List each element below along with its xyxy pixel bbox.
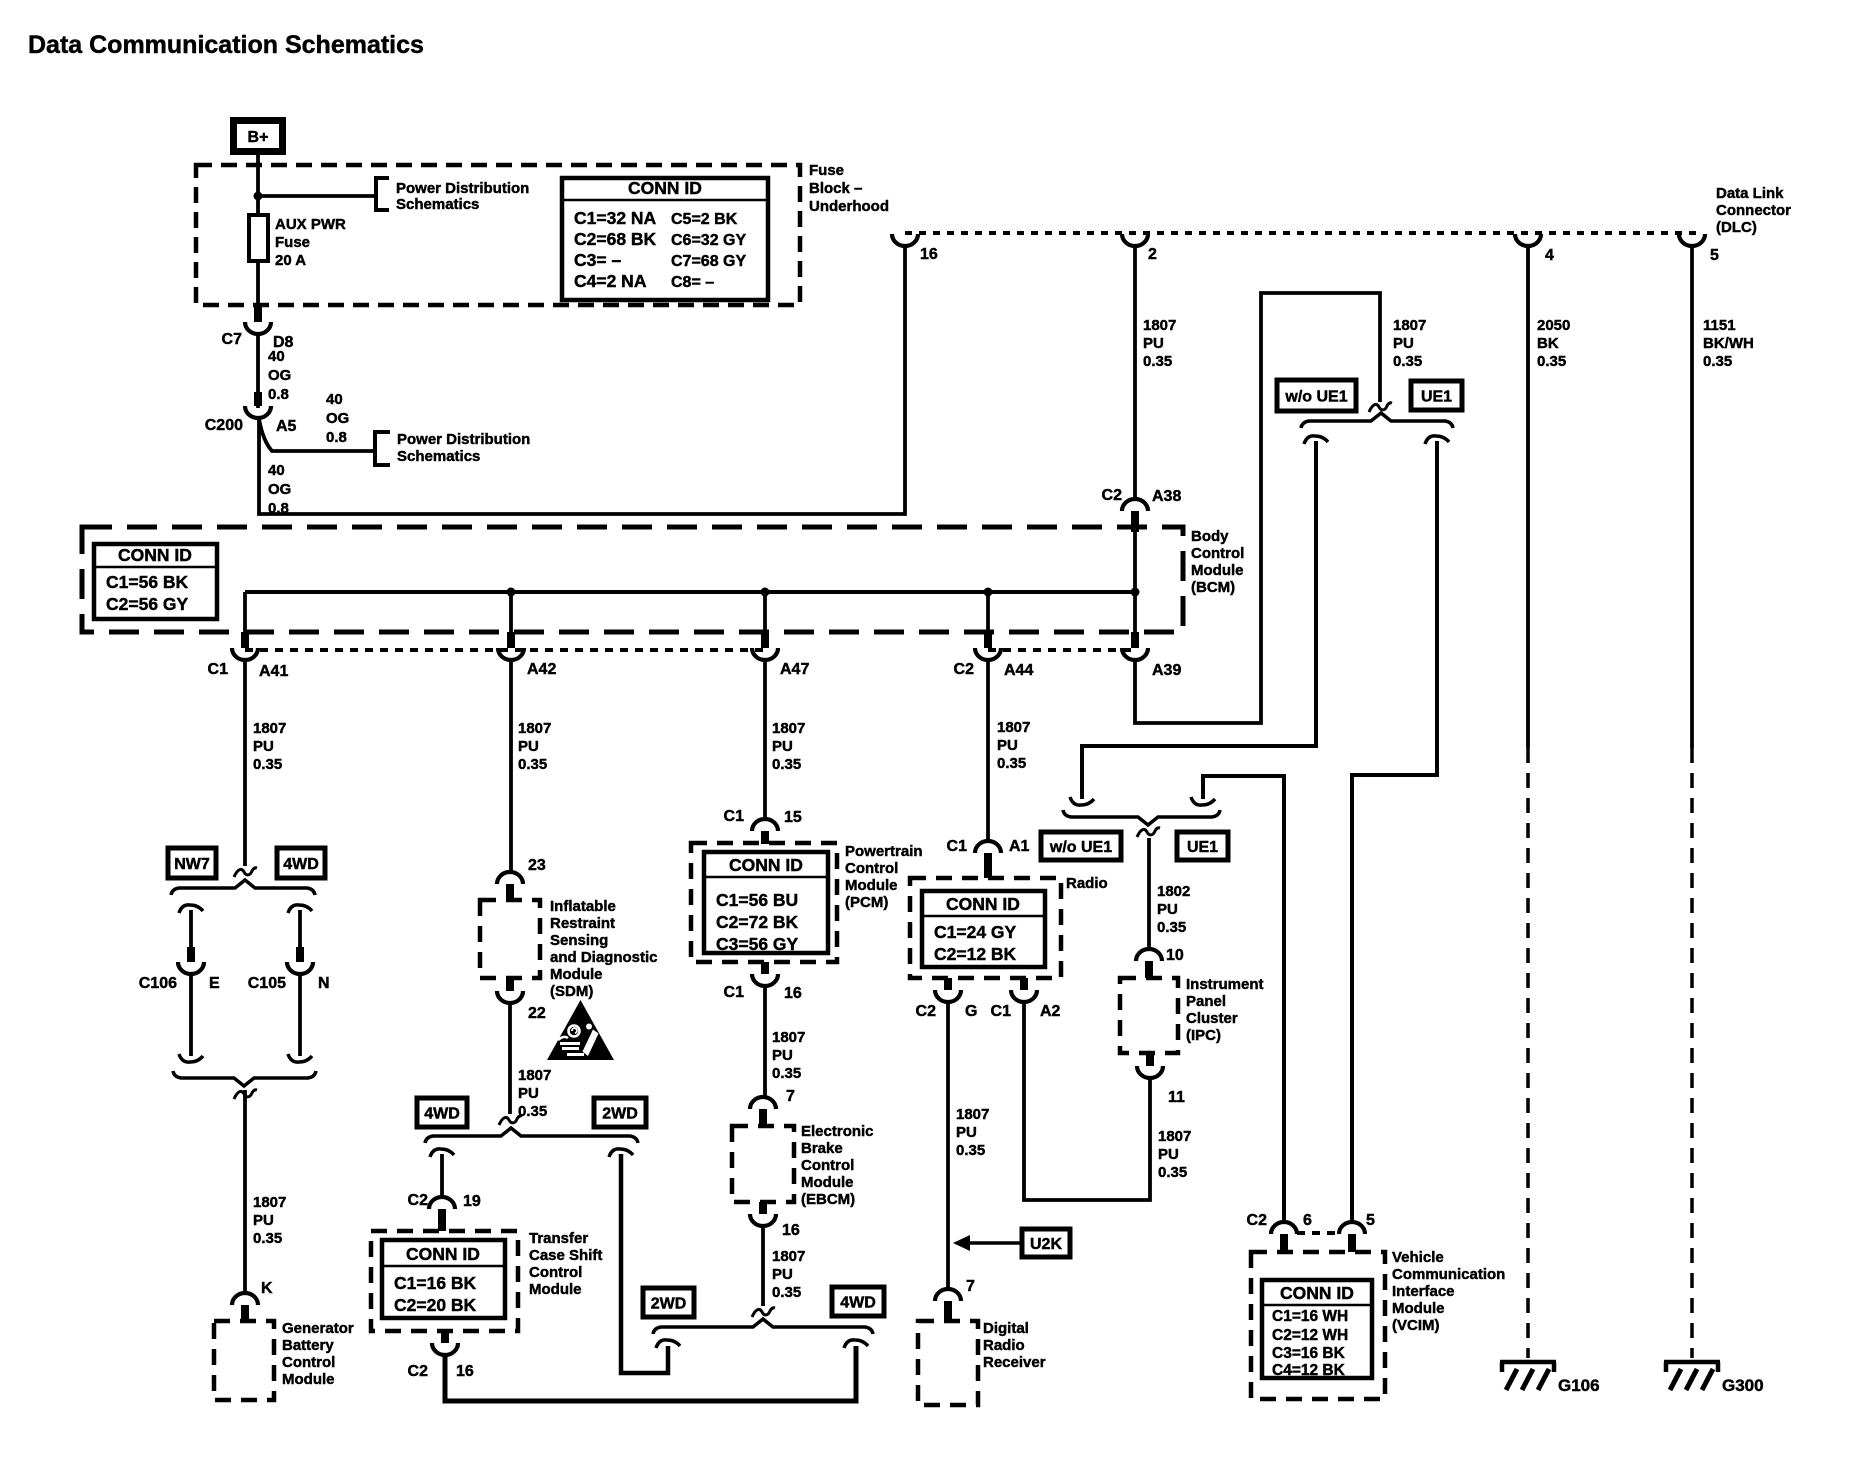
BCM bus drop A44 <box>986 592 990 632</box>
svg-text:Cluster: Cluster <box>1186 1010 1238 1027</box>
radio box <box>910 878 1061 978</box>
label UE1 box (upper) <box>1411 381 1462 410</box>
svg-text:Control: Control <box>529 1264 582 1281</box>
svg-text:A1: A1 <box>1009 838 1030 855</box>
svg-text:1807: 1807 <box>518 1067 551 1084</box>
wire break A41 <box>234 868 257 877</box>
svg-text:Receiver: Receiver <box>983 1354 1046 1371</box>
connector C105 N <box>248 947 330 992</box>
SDM box <box>480 900 540 978</box>
wire C106 branch upper <box>189 910 193 947</box>
label w/o UE1 box (lower) <box>1041 832 1121 860</box>
svg-text:1807: 1807 <box>772 1248 805 1265</box>
svg-text:PU: PU <box>518 1085 539 1102</box>
hook lower brace right <box>1191 797 1215 805</box>
wire C200 to DLC pin 16 <box>259 247 905 514</box>
svg-text:1807: 1807 <box>1143 317 1176 334</box>
svg-text:C2: C2 <box>408 1192 429 1209</box>
svg-text:Panel: Panel <box>1186 993 1226 1010</box>
wire UE1 branch to VCIM 5 <box>1352 441 1437 1221</box>
svg-text:(PCM): (PCM) <box>845 894 888 911</box>
junction dot A44 <box>984 588 993 597</box>
svg-text:w/o UE1: w/o UE1 <box>1284 389 1347 406</box>
svg-text:Power Distribution: Power Distribution <box>396 180 529 197</box>
radio CONN ID table <box>922 891 1045 967</box>
wire C105 branch lower <box>298 975 302 1056</box>
wire transfer 2WD branch to EBCM 2WD branch <box>621 1154 668 1373</box>
svg-text:C1: C1 <box>947 838 968 855</box>
wire DLC 2 to BCM A38 <box>1133 247 1137 498</box>
svg-text:Module: Module <box>845 877 898 894</box>
wire to power distribution tap <box>258 194 374 198</box>
svg-text:0.8: 0.8 <box>268 386 289 403</box>
connector K <box>232 1280 273 1321</box>
label inflatable restraint SDM <box>550 898 658 1000</box>
wire A42 down <box>509 661 513 871</box>
label 40 OG 0.8 (2) <box>326 391 349 446</box>
svg-text:5: 5 <box>1710 247 1719 264</box>
label 4WD box (EBCM) <box>832 1287 884 1316</box>
gather brace C106/C105 <box>173 1071 316 1086</box>
wire 22 down <box>508 1004 512 1114</box>
svg-text:0.35: 0.35 <box>956 1142 985 1159</box>
svg-text:Block –: Block – <box>809 180 862 197</box>
svg-text:C6=32 GY: C6=32 GY <box>671 232 746 249</box>
svg-text:CONN ID: CONN ID <box>628 178 702 198</box>
BCM C2 dotted connector line <box>988 648 1135 652</box>
svg-text:(SDM): (SDM) <box>550 983 593 1000</box>
label transfer case shift control module <box>529 1230 602 1298</box>
power distribution bracket 2 <box>375 432 390 465</box>
svg-text:C2=72 BK: C2=72 BK <box>716 912 799 932</box>
U2K arrow <box>953 1235 1022 1251</box>
BCM bus drop A42 <box>509 592 513 632</box>
svg-text:10: 10 <box>1166 947 1184 964</box>
wire DLC 4 (2050 BK) <box>1526 247 1530 1358</box>
wire C106 branch lower <box>189 975 193 1056</box>
svg-text:0.35: 0.35 <box>772 1065 801 1082</box>
connector C2 A44 <box>954 632 1034 679</box>
svg-text:G300: G300 <box>1722 1376 1764 1395</box>
digital radio receiver box <box>918 1321 978 1405</box>
transfer case module box <box>371 1231 518 1331</box>
svg-text:0.35: 0.35 <box>1537 353 1566 370</box>
svg-text:Body: Body <box>1191 528 1229 545</box>
svg-text:2: 2 <box>1148 246 1157 263</box>
svg-text:Radio: Radio <box>983 1337 1025 1354</box>
svg-text:OG: OG <box>268 481 291 498</box>
svg-text:C1=16 BK: C1=16 BK <box>394 1273 477 1293</box>
svg-text:UE1: UE1 <box>1421 389 1452 406</box>
wire break IPC <box>1137 828 1160 837</box>
connector C7 D8 <box>222 305 294 351</box>
svg-text:C1=16 WH: C1=16 WH <box>1272 1308 1348 1325</box>
svg-text:PU: PU <box>772 1047 793 1064</box>
svg-text:C2=12 BK: C2=12 BK <box>934 944 1017 964</box>
svg-text:Generator: Generator <box>282 1320 354 1337</box>
svg-text:C2: C2 <box>1247 1212 1268 1229</box>
svg-text:C105: C105 <box>248 975 286 992</box>
svg-text:C2: C2 <box>916 1003 937 1020</box>
svg-text:C2=56 GY: C2=56 GY <box>106 594 189 614</box>
hook transfer 2WD branch <box>609 1149 633 1157</box>
svg-text:0.35: 0.35 <box>1143 353 1172 370</box>
BCM box (dashed) <box>82 527 1183 632</box>
wire IPC 10 up <box>1147 838 1151 948</box>
connector C2 G <box>916 978 978 1020</box>
svg-text:(VCIM): (VCIM) <box>1392 1317 1440 1334</box>
label instrument panel cluster <box>1186 976 1264 1044</box>
PCM CONN ID table <box>704 852 828 954</box>
label pin 7 DRR <box>966 1278 975 1295</box>
svg-text:Connector: Connector <box>1716 202 1791 219</box>
svg-text:Module: Module <box>282 1371 335 1388</box>
junction dot A39 <box>1131 588 1140 597</box>
PCM box <box>691 843 837 962</box>
svg-text:Instrument: Instrument <box>1186 976 1264 993</box>
svg-text:PU: PU <box>518 738 539 755</box>
svg-text:C3= –: C3= – <box>574 250 621 270</box>
label 1807 PU 0.35 (GBCM) <box>253 1194 286 1247</box>
svg-text:PU: PU <box>253 1212 274 1229</box>
ground G106 <box>1500 1362 1600 1395</box>
svg-text:Control: Control <box>1191 545 1244 562</box>
svg-text:C3=16 BK: C3=16 BK <box>1272 1345 1346 1362</box>
split brace NW7/4WD <box>171 880 315 895</box>
wire DLC 5 (1151 BK/WH) <box>1690 247 1694 1358</box>
wire A5 to power distribution tap <box>259 419 375 451</box>
svg-text:16: 16 <box>782 1222 800 1239</box>
svg-text:E: E <box>209 975 220 992</box>
svg-text:C5=2 BK: C5=2 BK <box>671 211 738 228</box>
svg-text:Electronic: Electronic <box>801 1123 874 1140</box>
hook upper brace left <box>1304 436 1328 444</box>
svg-text:C1: C1 <box>724 808 745 825</box>
svg-text:0.35: 0.35 <box>253 1230 282 1247</box>
svg-text:1807: 1807 <box>253 720 286 737</box>
connector C1 A2 <box>991 978 1061 1020</box>
connector C2 19 <box>408 1192 481 1231</box>
DLC pin 16 <box>892 234 938 263</box>
svg-text:C4=12 BK: C4=12 BK <box>1272 1362 1346 1379</box>
svg-text:1807: 1807 <box>1393 317 1426 334</box>
connector 5 (VCIM) <box>1339 1212 1375 1252</box>
svg-text:C200: C200 <box>205 417 243 434</box>
svg-text:0.35: 0.35 <box>518 756 547 773</box>
label power distribution schematics 1 <box>396 180 529 213</box>
label data link connector <box>1716 185 1791 236</box>
VCIM CONN ID table <box>1262 1280 1372 1379</box>
svg-text:Module: Module <box>801 1174 854 1191</box>
svg-text:CONN ID: CONN ID <box>118 545 192 565</box>
svg-text:Case Shift: Case Shift <box>529 1247 602 1264</box>
svg-text:2WD: 2WD <box>651 1296 687 1313</box>
svg-text:(IPC): (IPC) <box>1186 1027 1221 1044</box>
svg-text:C3=56 GY: C3=56 GY <box>716 934 799 954</box>
svg-text:C2: C2 <box>1102 487 1123 504</box>
svg-text:PU: PU <box>772 1266 793 1283</box>
label 1807 PU 0.35 (A44) <box>997 719 1030 772</box>
svg-text:Digital: Digital <box>983 1320 1029 1337</box>
svg-text:Control: Control <box>801 1157 854 1174</box>
gather brace UE1 (lower) <box>1063 810 1220 825</box>
svg-text:PU: PU <box>997 737 1018 754</box>
SIR warning triangle <box>547 1000 614 1060</box>
ground G300 <box>1664 1362 1764 1395</box>
svg-text:1802: 1802 <box>1157 883 1190 900</box>
DLC pin 4 <box>1515 234 1554 264</box>
svg-text:1807: 1807 <box>1158 1128 1191 1145</box>
svg-text:A38: A38 <box>1152 488 1181 505</box>
svg-text:1807: 1807 <box>253 1194 286 1211</box>
junction dot A47 <box>761 588 770 597</box>
svg-text:Data Link: Data Link <box>1716 185 1784 202</box>
hook upper brace right <box>1425 436 1449 444</box>
transfer case CONN ID table <box>382 1240 505 1318</box>
label power distribution schematics 2 <box>397 431 530 465</box>
connector A39 <box>1122 632 1181 679</box>
svg-text:1807: 1807 <box>956 1106 989 1123</box>
svg-text:A39: A39 <box>1152 662 1181 679</box>
svg-text:C1: C1 <box>991 1003 1012 1020</box>
svg-text:Powertrain: Powertrain <box>845 843 923 860</box>
svg-text:C1: C1 <box>208 661 229 678</box>
svg-text:CONN ID: CONN ID <box>946 894 1020 914</box>
wire C7 to C200 <box>256 335 260 408</box>
wire radio G to digital radio receiver <box>946 1003 950 1288</box>
svg-text:40: 40 <box>268 462 285 479</box>
svg-text:Schematics: Schematics <box>396 196 479 213</box>
connector 23 <box>497 857 546 901</box>
svg-text:40: 40 <box>326 391 343 408</box>
BCM internal bus <box>245 590 1135 594</box>
wire break SDM <box>499 1116 522 1125</box>
label 4WD box (left) <box>277 848 325 878</box>
label powertrain control module <box>845 843 923 911</box>
svg-text:2WD: 2WD <box>602 1106 638 1123</box>
hook C105 branch <box>288 905 312 913</box>
svg-text:C2: C2 <box>954 661 975 678</box>
svg-text:40: 40 <box>268 348 285 365</box>
svg-text:C1=32 NA: C1=32 NA <box>574 208 657 228</box>
connector 11 <box>1137 1053 1185 1106</box>
connector C1 A41 <box>208 632 289 680</box>
wire transfer C2-16 to EBCM 4WD branch <box>445 1346 856 1401</box>
svg-text:PU: PU <box>253 738 274 755</box>
wire through fuse <box>256 215 260 305</box>
svg-text:4WD: 4WD <box>283 856 319 873</box>
svg-text:A5: A5 <box>276 418 297 435</box>
wire PCM to EBCM <box>763 987 767 1096</box>
svg-text:BK/WH: BK/WH <box>1703 335 1754 352</box>
wire EBCM down <box>761 1227 765 1306</box>
label pin 7 EBCM <box>786 1088 795 1105</box>
svg-text:Brake: Brake <box>801 1140 843 1157</box>
svg-text:OG: OG <box>326 410 349 427</box>
svg-text:Fuse: Fuse <box>275 234 310 251</box>
junction dot A42 <box>507 588 516 597</box>
B+ battery terminal <box>234 121 283 152</box>
svg-text:G106: G106 <box>1558 1376 1600 1395</box>
VCIM pins dotted link <box>1297 1231 1340 1235</box>
svg-text:C7: C7 <box>222 331 243 348</box>
label w/o UE1 box (upper) <box>1277 380 1356 411</box>
BCM CONN ID table <box>94 544 217 619</box>
svg-text:A2: A2 <box>1040 1003 1061 1020</box>
svg-text:Communication: Communication <box>1392 1266 1505 1283</box>
fuse AUX PWR 20A <box>249 215 346 269</box>
svg-text:PU: PU <box>772 738 793 755</box>
title <box>28 31 424 59</box>
svg-text:C1=24 GY: C1=24 GY <box>934 922 1017 942</box>
svg-text:1807: 1807 <box>772 720 805 737</box>
svg-text:(BCM): (BCM) <box>1191 579 1235 596</box>
svg-text:C106: C106 <box>139 975 177 992</box>
svg-text:Restraint: Restraint <box>550 915 615 932</box>
label 1807 PU 0.35 (PCM) <box>772 1029 805 1082</box>
connector 22 <box>497 978 546 1022</box>
svg-text:0.35: 0.35 <box>1703 353 1732 370</box>
wire A39 to upper brace <box>1135 293 1380 723</box>
DLC pin 2 <box>1122 234 1157 263</box>
svg-text:C1: C1 <box>724 984 745 1001</box>
connector A42 <box>498 632 556 678</box>
wire w/o UE1 branch to lower brace <box>1082 441 1316 799</box>
label radio <box>1066 875 1108 892</box>
svg-text:4WD: 4WD <box>424 1106 460 1123</box>
EBCM box <box>732 1126 794 1202</box>
DLC pin 5 <box>1679 234 1719 264</box>
fuse block underhood box (dashed) <box>196 165 800 305</box>
label 1807 PU 0.35 (EBCM) <box>772 1248 805 1301</box>
label NW7 box <box>168 848 216 878</box>
svg-text:AUX PWR: AUX PWR <box>275 216 346 233</box>
svg-text:2050: 2050 <box>1537 317 1570 334</box>
svg-text:Transfer: Transfer <box>529 1230 588 1247</box>
svg-text:C2: C2 <box>408 1363 429 1380</box>
svg-text:0.35: 0.35 <box>772 756 801 773</box>
svg-text:N: N <box>318 975 330 992</box>
svg-text:16: 16 <box>784 985 802 1002</box>
svg-text:CONN ID: CONN ID <box>729 855 803 875</box>
hook EBCM 4WD branch <box>844 1340 868 1348</box>
svg-text:C4=2 NA: C4=2 NA <box>574 271 647 291</box>
svg-text:Module: Module <box>550 966 603 983</box>
VCIM box <box>1251 1252 1385 1399</box>
hook lower brace left <box>1070 797 1094 805</box>
svg-text:7: 7 <box>966 1278 975 1295</box>
connector 7 (DRR) <box>935 1289 961 1321</box>
wire break upper brace <box>1369 403 1392 412</box>
svg-text:Schematics: Schematics <box>397 448 480 465</box>
svg-text:U2K: U2K <box>1030 1236 1062 1253</box>
IPC box <box>1120 978 1178 1053</box>
svg-text:A44: A44 <box>1004 662 1033 679</box>
svg-text:0.35: 0.35 <box>1157 919 1186 936</box>
label 1807 PU 0.35 (A47) <box>772 720 805 773</box>
wire to generator battery control module <box>243 1090 247 1292</box>
hook C106 bottom <box>179 1054 203 1062</box>
svg-text:0.35: 0.35 <box>1393 353 1422 370</box>
label body control module <box>1191 528 1244 596</box>
label 40 OG 0.8 (3) <box>268 462 291 517</box>
svg-text:11: 11 <box>1168 1089 1185 1106</box>
wire A44 down <box>986 661 990 840</box>
svg-text:OG: OG <box>268 367 291 384</box>
connector C1 15 <box>724 808 802 844</box>
svg-text:(DLC): (DLC) <box>1716 219 1757 236</box>
wire A41 down <box>243 661 247 866</box>
svg-text:PU: PU <box>1157 901 1178 918</box>
svg-text:A41: A41 <box>259 663 288 680</box>
wire break EBCM <box>752 1308 775 1317</box>
label 1807 PU 0.35 (A41) <box>253 720 286 773</box>
hook C106 branch <box>179 905 203 913</box>
svg-text:0.8: 0.8 <box>326 429 347 446</box>
generator battery control module box <box>214 1321 274 1400</box>
svg-text:0.35: 0.35 <box>253 756 282 773</box>
label fuse block underhood <box>809 162 889 215</box>
svg-text:Radio: Radio <box>1066 875 1108 892</box>
connector C200 A5 <box>205 392 297 435</box>
label electronic brake control module <box>801 1123 874 1208</box>
svg-text:7: 7 <box>786 1088 795 1105</box>
svg-text:23: 23 <box>528 857 546 874</box>
label 1807 PU 0.35 (A39) <box>1393 317 1426 370</box>
label digital radio receiver <box>983 1320 1046 1371</box>
BCM bus drop A41 <box>243 592 247 632</box>
split brace UE1 (upper) <box>1301 413 1453 428</box>
svg-text:PU: PU <box>1143 335 1164 352</box>
label UE1 box (lower) <box>1177 832 1228 860</box>
label 1802 PU 0.35 <box>1157 883 1190 936</box>
wire B+ to fuse <box>256 155 260 215</box>
svg-text:1807: 1807 <box>772 1029 805 1046</box>
svg-text:4WD: 4WD <box>840 1295 876 1312</box>
svg-text:Interface: Interface <box>1392 1283 1455 1300</box>
svg-text:Battery: Battery <box>282 1337 334 1354</box>
svg-text:0.35: 0.35 <box>1158 1164 1187 1181</box>
svg-text:and Diagnostic: and Diagnostic <box>550 949 658 966</box>
wire transfer 4WD branch <box>440 1154 444 1196</box>
svg-text:Data Communication Schematics: Data Communication Schematics <box>28 31 424 59</box>
svg-text:PU: PU <box>1393 335 1414 352</box>
connector 16 (EBCM) <box>750 1202 800 1239</box>
svg-text:4: 4 <box>1545 247 1554 264</box>
svg-text:B+: B+ <box>248 129 269 146</box>
svg-text:NW7: NW7 <box>174 856 210 873</box>
node junction dot <box>254 192 263 201</box>
svg-text:Module: Module <box>1191 562 1244 579</box>
label 2WD box (EBCM) <box>643 1288 694 1317</box>
label 1807 PU 0.35 (radio) <box>956 1106 989 1159</box>
svg-text:G: G <box>965 1003 977 1020</box>
svg-text:Power Distribution: Power Distribution <box>397 431 530 448</box>
wire A47 down <box>763 661 767 818</box>
svg-text:19: 19 <box>463 1193 481 1210</box>
svg-text:A42: A42 <box>527 661 556 678</box>
svg-text:Module: Module <box>529 1281 582 1298</box>
connector C2 A38 <box>1102 487 1182 532</box>
svg-text:C1=56 BK: C1=56 BK <box>106 572 189 592</box>
label 2050 BK 0.35 <box>1537 317 1570 370</box>
svg-text:A47: A47 <box>780 661 809 678</box>
svg-text:w/o UE1: w/o UE1 <box>1049 839 1112 856</box>
BCM bus drop A47 <box>763 592 767 632</box>
wire radio A2 to IPC 11 <box>1024 1003 1150 1200</box>
BCM C1 dotted connector line <box>245 648 765 652</box>
label 40 OG 0.8 (1) <box>268 348 291 403</box>
